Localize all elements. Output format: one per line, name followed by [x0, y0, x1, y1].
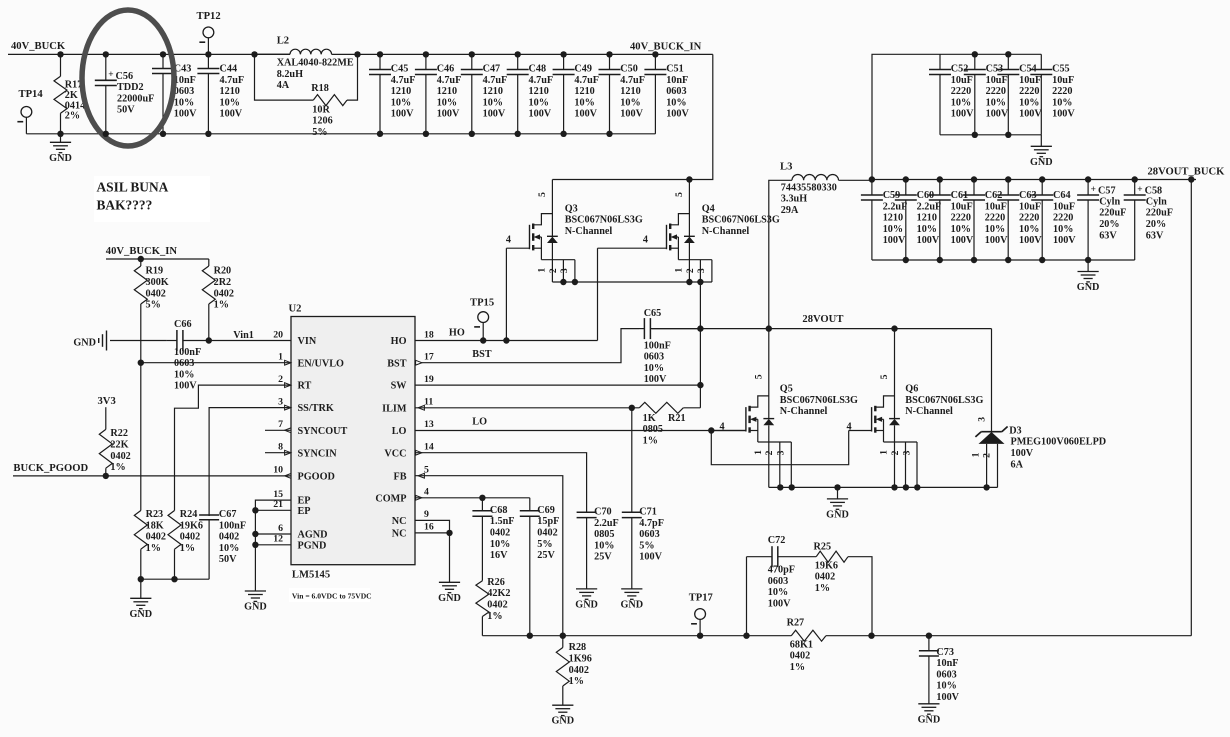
svg-text:8: 8	[278, 442, 283, 453]
svg-text:FB: FB	[393, 471, 406, 482]
wire 40V_BUCK top rail	[8, 53, 290, 55]
svg-text:10%: 10%	[483, 97, 503, 108]
svg-text:1%: 1%	[487, 611, 502, 622]
svg-text:1%: 1%	[790, 662, 805, 673]
svg-text:20%: 20%	[1146, 219, 1166, 230]
svg-text:1%: 1%	[110, 462, 125, 473]
svg-text:GND: GND	[826, 509, 849, 520]
svg-text:0402: 0402	[219, 532, 239, 543]
svg-text:10uF: 10uF	[1052, 75, 1074, 86]
test point TP14	[17, 89, 43, 134]
svg-text:AGND: AGND	[298, 530, 328, 541]
svg-text:C72: C72	[768, 535, 786, 546]
svg-text:0603: 0603	[174, 86, 194, 97]
wire SW line	[415, 384, 700, 386]
wire C59 bank bottom rail	[872, 259, 1135, 261]
svg-text:HO: HO	[449, 328, 465, 339]
svg-text:BUCK_PGOOD: BUCK_PGOOD	[13, 463, 88, 474]
wire Q4 gate riser	[597, 248, 599, 340]
svg-text:R22: R22	[110, 428, 128, 439]
node 40V_BUCK_IN label top	[630, 41, 702, 52]
svg-text:100V: 100V	[985, 235, 1008, 246]
svg-text:10uF: 10uF	[986, 75, 1008, 86]
junction dots C52 bank	[972, 51, 1012, 138]
svg-text:100V: 100V	[768, 598, 791, 609]
node LO label	[472, 417, 487, 428]
svg-text:4.7uF: 4.7uF	[220, 75, 245, 86]
svg-text:0402: 0402	[537, 528, 557, 539]
annotation text ASIL BUNA BAK????	[94, 176, 210, 222]
svg-text:42K2: 42K2	[487, 588, 510, 599]
svg-text:LO: LO	[472, 417, 487, 428]
junction dot SW	[697, 382, 703, 388]
svg-text:10nF: 10nF	[174, 75, 196, 86]
svg-text:5: 5	[753, 374, 764, 379]
capacitor C58 (polarized)	[1124, 180, 1173, 261]
wire riser to C52 bank	[872, 54, 940, 179]
junction dots 28VOUT line	[697, 325, 898, 331]
wire Q3 gate riser	[505, 248, 507, 340]
capacitor C61	[929, 180, 974, 261]
capacitor C53	[964, 54, 1009, 135]
svg-text:100nF: 100nF	[174, 347, 201, 358]
resistor R23	[134, 509, 166, 579]
svg-text:1210: 1210	[483, 86, 503, 97]
svg-text:10%: 10%	[620, 97, 640, 108]
svg-text:BSC067N06LS3G: BSC067N06LS3G	[905, 395, 983, 406]
svg-text:R28: R28	[569, 642, 587, 653]
svg-text:10%: 10%	[1053, 224, 1073, 235]
svg-text:1%: 1%	[643, 435, 658, 446]
svg-text:4: 4	[506, 235, 511, 246]
wire SW vertical chain	[699, 282, 701, 408]
svg-text:16: 16	[424, 522, 434, 533]
test point TP12	[197, 11, 221, 54]
svg-text:C64: C64	[1053, 190, 1071, 201]
svg-text:2.2uF: 2.2uF	[594, 518, 619, 529]
svg-text:5%: 5%	[639, 540, 654, 551]
svg-text:13: 13	[424, 419, 434, 430]
svg-text:5: 5	[674, 192, 685, 197]
svg-text:GND: GND	[1030, 157, 1053, 168]
svg-text:2: 2	[278, 374, 283, 385]
capacitor C43	[152, 54, 197, 133]
svg-text:0402: 0402	[487, 600, 507, 611]
svg-text:C66: C66	[174, 319, 192, 330]
svg-text:100nF: 100nF	[219, 520, 246, 531]
svg-text:EP: EP	[298, 506, 311, 517]
svg-text:10R: 10R	[312, 104, 330, 115]
svg-text:2R2: 2R2	[214, 277, 232, 288]
test point TP17	[689, 593, 714, 636]
svg-text:10%: 10%	[574, 97, 594, 108]
svg-text:Q4: Q4	[702, 203, 715, 214]
svg-text:10%: 10%	[174, 97, 194, 108]
svg-text:14: 14	[424, 442, 434, 453]
wire LO gate bypass to Q6	[711, 431, 848, 465]
svg-text:R23: R23	[146, 509, 164, 520]
svg-text:R24: R24	[180, 509, 198, 520]
svg-text:ILIM: ILIM	[382, 403, 407, 414]
svg-text:10nF: 10nF	[936, 658, 958, 669]
svg-text:2: 2	[982, 453, 993, 458]
svg-text:4: 4	[424, 487, 429, 498]
svg-text:PMEG100V060ELPD: PMEG100V060ELPD	[1011, 437, 1107, 448]
ground under C70	[575, 589, 598, 611]
svg-text:C67: C67	[219, 509, 237, 520]
capacitor C54	[997, 54, 1042, 135]
svg-text:10%: 10%	[174, 369, 194, 380]
svg-text:C51: C51	[666, 64, 684, 75]
svg-text:C48: C48	[529, 64, 547, 75]
svg-text:100V: 100V	[936, 692, 959, 703]
svg-text:+: +	[1091, 185, 1096, 195]
junction dots C59 bank bottom	[903, 257, 1092, 263]
svg-text:3: 3	[776, 450, 787, 455]
svg-text:C46: C46	[437, 64, 455, 75]
svg-text:N-Channel: N-Channel	[905, 406, 953, 417]
svg-text:0805: 0805	[643, 424, 663, 435]
svg-text:100V: 100V	[639, 552, 662, 563]
resistor R21	[639, 402, 685, 446]
svg-text:50V: 50V	[117, 105, 135, 116]
svg-text:0402: 0402	[180, 532, 200, 543]
svg-text:3: 3	[901, 450, 912, 455]
inductor L3	[769, 161, 872, 328]
svg-text:L2: L2	[277, 35, 289, 46]
svg-text:40V_BUCK_IN: 40V_BUCK_IN	[630, 41, 702, 52]
svg-text:100V: 100V	[1011, 448, 1034, 459]
ground under R23	[129, 579, 152, 620]
capacitor C49	[553, 54, 599, 133]
svg-text:GND: GND	[918, 714, 941, 725]
wire FB column	[415, 476, 563, 636]
wire 40V_BUCK_IN down to Q3/Q4	[552, 54, 712, 179]
svg-text:N-Channel: N-Channel	[565, 226, 613, 237]
U2 pin arrows	[285, 360, 425, 500]
svg-text:4A: 4A	[277, 80, 290, 91]
svg-text:20: 20	[273, 329, 283, 340]
svg-text:1%: 1%	[214, 300, 229, 311]
junction dot Q4 drain	[686, 176, 692, 182]
svg-text:Cyln: Cyln	[1099, 196, 1120, 207]
wire L2 left node	[255, 53, 291, 55]
diode D3	[970, 329, 1106, 488]
svg-text:BST: BST	[472, 349, 491, 360]
svg-text:19: 19	[424, 374, 434, 385]
svg-text:BAK????: BAK????	[97, 198, 153, 213]
svg-text:SW: SW	[391, 381, 408, 392]
svg-text:1210: 1210	[391, 86, 411, 97]
svg-text:4: 4	[643, 235, 648, 246]
node 28VOUT_BUCK label	[1148, 166, 1226, 177]
svg-text:100V: 100V	[1019, 235, 1042, 246]
wire LO line	[415, 430, 746, 432]
svg-text:5: 5	[537, 192, 548, 197]
junction dots HO line	[480, 337, 510, 343]
svg-text:0402: 0402	[214, 288, 234, 299]
ground under C71	[620, 589, 643, 611]
junction dot NC	[446, 530, 452, 536]
transistor Q6	[847, 329, 984, 488]
node 40V_BUCK_IN label left	[106, 246, 178, 257]
svg-text:R27: R27	[787, 617, 805, 628]
capacitor C59	[861, 180, 907, 261]
svg-text:100V: 100V	[644, 374, 667, 385]
svg-text:0402: 0402	[110, 451, 130, 462]
svg-text:0402: 0402	[490, 528, 510, 539]
svg-text:4.7uF: 4.7uF	[529, 75, 554, 86]
capacitor C60	[895, 180, 941, 261]
svg-text:Q5: Q5	[780, 384, 793, 395]
svg-text:VIN: VIN	[298, 336, 317, 347]
svg-text:15pF: 15pF	[537, 516, 559, 527]
svg-text:22K: 22K	[110, 440, 128, 451]
svg-text:1: 1	[753, 450, 764, 455]
svg-text:Vin1: Vin1	[233, 330, 254, 341]
junction dots low-side source rail	[777, 484, 990, 490]
svg-text:U2: U2	[289, 304, 302, 315]
ground under NC pins	[438, 533, 461, 604]
node BUCK_PGOOD label	[13, 463, 88, 474]
svg-text:100V: 100V	[620, 109, 643, 120]
svg-text:2220: 2220	[1019, 213, 1039, 224]
resistor R17	[54, 54, 85, 133]
svg-text:Q3: Q3	[565, 203, 578, 214]
wire SYNCOUT stub	[265, 429, 291, 431]
capacitor C52	[929, 54, 974, 135]
svg-text:R25: R25	[814, 542, 832, 553]
svg-text:63V: 63V	[1146, 230, 1164, 241]
svg-text:100V: 100V	[391, 109, 414, 120]
svg-text:XAL4040-822ME: XAL4040-822ME	[277, 58, 354, 69]
svg-text:100V: 100V	[1053, 235, 1076, 246]
svg-text:18: 18	[424, 329, 434, 340]
svg-text:18K: 18K	[146, 520, 164, 531]
ground under C55 bank	[1030, 135, 1053, 168]
svg-text:10%: 10%	[768, 587, 788, 598]
capacitor C62	[963, 180, 1008, 261]
test point TP15	[470, 297, 494, 340]
node 28VOUT label	[802, 314, 843, 325]
svg-text:3: 3	[278, 396, 283, 407]
svg-text:N-Channel: N-Channel	[702, 226, 750, 237]
svg-text:11: 11	[424, 397, 433, 408]
svg-text:0402: 0402	[815, 572, 835, 583]
node Vin1 label	[233, 330, 254, 341]
capacitor C47	[461, 54, 507, 133]
svg-text:10uF: 10uF	[985, 201, 1007, 212]
svg-text:1%: 1%	[815, 583, 830, 594]
svg-text:10%: 10%	[917, 224, 937, 235]
svg-text:10uF: 10uF	[1019, 75, 1041, 86]
svg-text:GND: GND	[49, 153, 72, 164]
capacitor C68	[472, 498, 492, 581]
wire EN column to R23	[140, 363, 142, 511]
svg-text:300K: 300K	[146, 277, 169, 288]
svg-text:10%: 10%	[1019, 97, 1039, 108]
svg-text:28VOUT: 28VOUT	[802, 314, 843, 325]
node HO label	[449, 328, 465, 339]
svg-text:19K6: 19K6	[815, 560, 838, 571]
svg-text:C68: C68	[490, 505, 508, 516]
svg-text:74435580330: 74435580330	[781, 182, 837, 193]
capacitor C66	[166, 319, 291, 392]
svg-text:3: 3	[696, 268, 707, 273]
wire NC pins to gnd	[415, 520, 450, 533]
svg-text:SS/TRK: SS/TRK	[298, 403, 334, 414]
svg-text:1210: 1210	[437, 86, 457, 97]
svg-text:C65: C65	[644, 308, 662, 319]
svg-text:C70: C70	[594, 507, 612, 518]
svg-text:1.5nF: 1.5nF	[490, 516, 515, 527]
node 40V_BUCK label	[11, 41, 66, 52]
svg-text:10%: 10%	[883, 224, 903, 235]
svg-text:R26: R26	[487, 577, 505, 588]
wire top rail to cap bank	[358, 53, 713, 55]
svg-text:20%: 20%	[1099, 219, 1119, 230]
svg-text:50V: 50V	[219, 554, 237, 565]
wire BUCK_PGOOD	[13, 475, 291, 477]
svg-text:GND: GND	[244, 602, 267, 613]
wire EN/UVLO	[141, 362, 291, 364]
capacitor C72 / resistor R25 branch	[747, 546, 873, 636]
svg-text:4.7uF: 4.7uF	[574, 75, 599, 86]
svg-text:29A: 29A	[781, 205, 799, 216]
wire input GND bottom rail	[26, 133, 655, 135]
junction dot R22 bottom	[103, 473, 109, 479]
svg-text:100V: 100V	[174, 381, 197, 392]
capacitor C65	[639, 308, 700, 385]
svg-text:TP14: TP14	[19, 89, 44, 100]
wire COMP line	[415, 497, 530, 499]
svg-text:TP17: TP17	[689, 593, 714, 604]
svg-text:0805: 0805	[594, 529, 614, 540]
svg-text:100V: 100V	[529, 109, 552, 120]
svg-text:10%: 10%	[666, 97, 686, 108]
svg-text:C50: C50	[620, 64, 638, 75]
capacitor C63	[997, 180, 1042, 261]
svg-text:2: 2	[685, 268, 696, 273]
svg-text:25V: 25V	[594, 552, 612, 563]
svg-text:C55: C55	[1052, 64, 1070, 75]
svg-text:5%: 5%	[312, 127, 327, 138]
svg-text:BST: BST	[387, 358, 406, 369]
svg-text:LM5145: LM5145	[292, 570, 330, 581]
svg-text:GND: GND	[620, 599, 643, 610]
svg-text:100V: 100V	[1019, 109, 1042, 120]
transistor Q3	[506, 180, 643, 283]
svg-text:C49: C49	[574, 64, 592, 75]
svg-text:10%: 10%	[437, 97, 457, 108]
wire C52 bank top rail	[940, 53, 1041, 55]
ground under Q5/Q6	[826, 487, 849, 520]
svg-text:2220: 2220	[1019, 86, 1039, 97]
svg-text:10%: 10%	[220, 97, 240, 108]
svg-text:28VOUT_BUCK: 28VOUT_BUCK	[1148, 166, 1226, 177]
svg-text:100V: 100V	[883, 235, 906, 246]
svg-text:NC: NC	[392, 516, 407, 527]
svg-text:0603: 0603	[639, 529, 659, 540]
svg-text:5: 5	[879, 374, 890, 379]
svg-text:2.2uF: 2.2uF	[883, 201, 908, 212]
capacitor C64	[1031, 180, 1076, 261]
svg-text:1: 1	[879, 450, 890, 455]
svg-text:2220: 2220	[951, 86, 971, 97]
svg-text:TDD2: TDD2	[117, 82, 144, 93]
svg-text:100V: 100V	[951, 109, 974, 120]
svg-text:R19: R19	[146, 266, 164, 277]
svg-text:100V: 100V	[1052, 109, 1075, 120]
svg-text:8.2uH: 8.2uH	[277, 69, 303, 80]
svg-text:C44: C44	[220, 64, 238, 75]
svg-text:HO: HO	[391, 336, 407, 347]
svg-text:SYNCOUT: SYNCOUT	[298, 426, 348, 437]
svg-text:C57: C57	[1098, 185, 1116, 196]
svg-text:0603: 0603	[174, 358, 194, 369]
svg-text:10uF: 10uF	[951, 201, 973, 212]
svg-text:25V: 25V	[537, 550, 555, 561]
svg-text:N-Channel: N-Channel	[780, 406, 828, 417]
svg-text:NC: NC	[392, 529, 407, 540]
svg-text:COMP: COMP	[375, 493, 406, 504]
svg-text:2220: 2220	[1053, 213, 1073, 224]
wire EP/AGND/PGND column	[255, 500, 291, 545]
svg-text:100V: 100V	[483, 109, 506, 120]
capacitor C56 (polarized)	[95, 54, 155, 133]
svg-text:0603: 0603	[768, 576, 788, 587]
svg-text:Vin = 6.0VDC to 75VDC: Vin = 6.0VDC to 75VDC	[292, 591, 372, 600]
svg-text:10%: 10%	[594, 540, 614, 551]
svg-text:C71: C71	[639, 507, 657, 518]
svg-text:68K1: 68K1	[790, 639, 813, 650]
svg-text:1: 1	[673, 268, 684, 273]
svg-text:1210: 1210	[917, 213, 937, 224]
svg-text:2: 2	[764, 450, 775, 455]
wire 40V_BUCK_IN stub	[106, 258, 209, 260]
svg-text:10%: 10%	[985, 224, 1005, 235]
U2 pin numbers	[273, 329, 434, 544]
svg-text:C47: C47	[483, 64, 501, 75]
svg-text:1210: 1210	[220, 86, 240, 97]
svg-text:1%: 1%	[569, 676, 584, 687]
wire BST to C65	[415, 329, 639, 363]
svg-text:GND: GND	[73, 337, 96, 348]
node BST label	[472, 349, 491, 360]
svg-text:SYNCIN: SYNCIN	[298, 448, 338, 459]
svg-text:10%: 10%	[219, 543, 239, 554]
svg-text:4.7uF: 4.7uF	[483, 75, 508, 86]
ground under C57 bank	[1077, 260, 1100, 293]
svg-text:10%: 10%	[644, 363, 664, 374]
capacitor C44	[197, 54, 244, 133]
transistor Q5	[711, 329, 858, 488]
inductor L2	[255, 35, 358, 91]
svg-text:10uF: 10uF	[1019, 201, 1041, 212]
ground under R17	[49, 134, 72, 164]
svg-text:1210: 1210	[883, 213, 903, 224]
svg-text:17: 17	[424, 352, 434, 363]
svg-text:2220: 2220	[986, 86, 1006, 97]
svg-text:RT: RT	[298, 381, 312, 392]
wire FB rail	[482, 635, 1191, 637]
svg-text:5%: 5%	[146, 300, 161, 311]
svg-text:GND: GND	[438, 593, 461, 604]
svg-text:1K96: 1K96	[569, 654, 592, 665]
svg-text:100V: 100V	[666, 109, 689, 120]
svg-text:220uF: 220uF	[1099, 208, 1126, 219]
resistor R28	[556, 636, 592, 706]
